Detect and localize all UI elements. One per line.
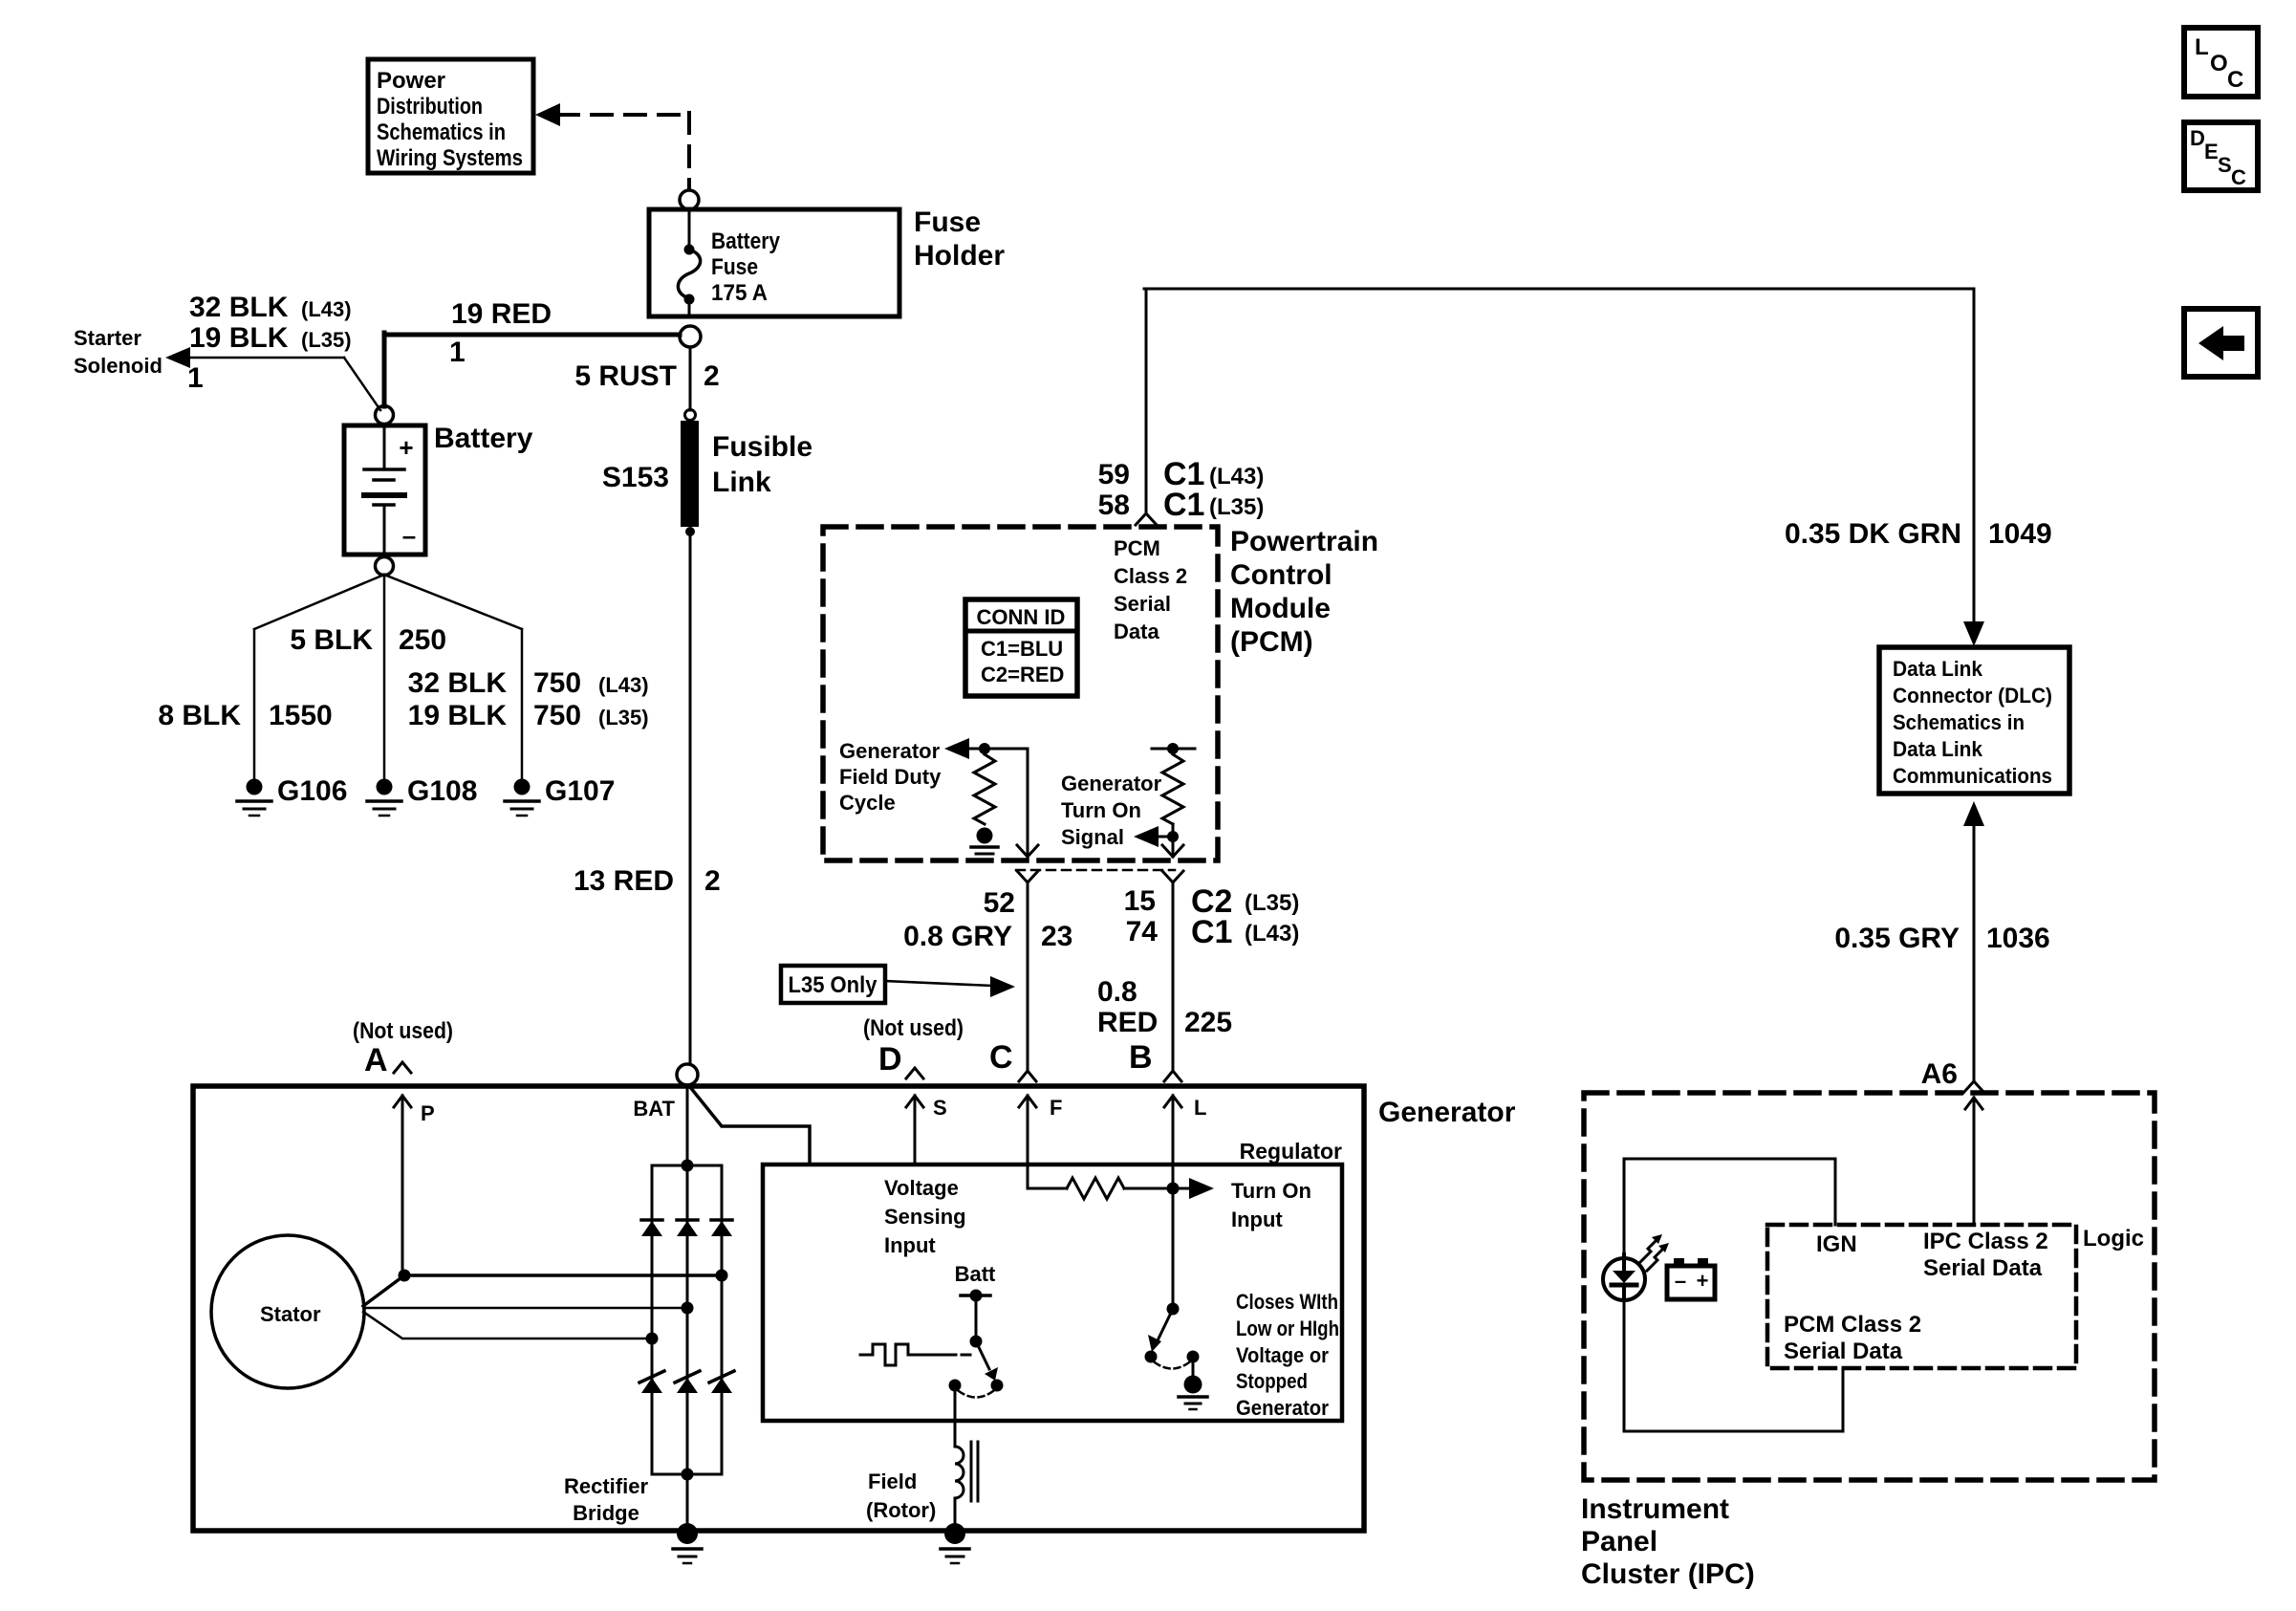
svg-text:L: L (1194, 1096, 1206, 1120)
wire: LED to PCM class 2 serial data (1623, 1295, 1626, 1431)
svg-text:Stator: Stator (260, 1302, 321, 1326)
svg-text:G106: G106 (277, 775, 347, 807)
svg-text:D: D (2190, 126, 2205, 150)
svg-text:C1: C1 (1191, 914, 1232, 950)
svg-text:PCM Class 2: PCM Class 2 (1784, 1312, 1921, 1338)
svg-text:Generator: Generator (1378, 1097, 1516, 1128)
zener diode (bottom row) x3 (639, 1371, 664, 1393)
generator pin labels A/D/C/B (353, 1015, 1153, 1078)
svg-text:L: L (2195, 34, 2209, 60)
svg-text:C: C (2231, 165, 2246, 189)
svg-text:Turn On: Turn On (1061, 798, 1141, 822)
svg-text:0.35 DK GRN: 0.35 DK GRN (1785, 518, 1961, 550)
svg-text:Regulator: Regulator (1240, 1139, 1342, 1164)
svg-text:L35 Only: L35 Only (789, 972, 878, 998)
svg-text:1049: 1049 (1988, 518, 2052, 550)
svg-text:2: 2 (704, 360, 720, 392)
wire: 0.8 GRY 23 circuit to generator F (1027, 882, 1029, 1072)
svg-text:Generator: Generator (1061, 772, 1162, 795)
svg-text:59: 59 (1098, 459, 1130, 490)
svg-text:32 BLK: 32 BLK (408, 667, 508, 699)
svg-text:Link: Link (712, 467, 771, 498)
wire label: 5 RUST 2 (574, 360, 719, 392)
svg-text:Solenoid: Solenoid (74, 354, 162, 378)
svg-text:(L43): (L43) (598, 673, 649, 697)
svg-text:(L43): (L43) (301, 297, 352, 321)
wire: BAT sense into regulator (690, 1087, 810, 1165)
svg-text:Stopped: Stopped (1236, 1369, 1308, 1393)
battery (344, 425, 425, 555)
ground: rectifier bridge to case (673, 1523, 702, 1563)
svg-text:BAT: BAT (633, 1097, 675, 1121)
svg-text:Generator: Generator (1236, 1396, 1329, 1420)
svg-text:(Not used): (Not used) (863, 1015, 964, 1041)
wire: stator phase 2 (364, 1307, 687, 1310)
svg-text:Schematics in: Schematics in (377, 120, 506, 145)
svg-text:13 RED: 13 RED (574, 865, 674, 897)
node: ring terminal above fuse holder (680, 190, 699, 209)
Powertrain Control Module (PCM) dashed box (823, 527, 1218, 860)
resistor: turn on input feed (1028, 1187, 1067, 1190)
svg-text:32 BLK: 32 BLK (189, 292, 289, 323)
node: battery positive ring terminal (376, 406, 394, 425)
svg-text:750: 750 (533, 700, 581, 731)
svg-text:Input: Input (1231, 1208, 1283, 1231)
svg-text:175 A: 175 A (711, 280, 768, 306)
svg-text:Voltage or: Voltage or (1236, 1343, 1329, 1367)
svg-text:S153: S153 (602, 462, 669, 493)
svg-text:2: 2 (704, 865, 721, 897)
svg-text:8 BLK: 8 BLK (158, 700, 241, 731)
svg-text:15: 15 (1124, 885, 1156, 917)
node: ring terminal below fuse holder (680, 326, 701, 347)
pin F with arrow (1019, 1096, 1036, 1107)
svg-text:Data Link: Data Link (1893, 737, 1983, 761)
svg-text:C: C (989, 1039, 1013, 1076)
pin 59/58 C1 connector chevron at PCM (1136, 513, 1157, 525)
svg-text:C1: C1 (1163, 487, 1204, 523)
svg-text:Logic: Logic (2083, 1226, 2144, 1252)
svg-text:(L35): (L35) (1209, 494, 1264, 520)
svg-text:5 RUST: 5 RUST (574, 360, 677, 392)
svg-text:B: B (1129, 1039, 1153, 1076)
CONN ID legend table (965, 599, 1077, 696)
svg-text:Class 2: Class 2 (1114, 564, 1187, 588)
svg-text:1550: 1550 (269, 700, 333, 731)
Instrument Panel Cluster (IPC) dashed box (1584, 1093, 2155, 1480)
svg-text:Batt: Batt (955, 1262, 996, 1286)
wire: 0.35 GRY 1036 from IPC to DLC (1963, 801, 1984, 826)
svg-text:19 BLK: 19 BLK (189, 322, 289, 354)
svg-text:D: D (878, 1041, 902, 1078)
svg-text:Field: Field (868, 1469, 917, 1493)
svg-text:Control: Control (1230, 559, 1332, 591)
field (rotor) coil (954, 1385, 957, 1447)
node: battery negative ring terminal (376, 557, 394, 576)
svg-text:Battery: Battery (711, 229, 781, 254)
svg-text:Sensing: Sensing (884, 1205, 966, 1229)
pin P with arrow (394, 1096, 411, 1107)
svg-text:P: P (421, 1101, 435, 1125)
svg-text:Turn On: Turn On (1231, 1179, 1311, 1203)
svg-text:Connector (DLC): Connector (DLC) (1893, 684, 2052, 708)
svg-text:Fusible: Fusible (712, 431, 812, 463)
wire: 5 RUST down from fuse holder (689, 347, 692, 410)
svg-text:Power: Power (377, 68, 445, 94)
PWM waveform symbol (860, 1344, 924, 1365)
svg-text:Serial Data: Serial Data (1784, 1339, 1903, 1364)
wire: 13 RED 2 down to generator BAT (689, 532, 692, 1064)
wire: stator phase 3 (363, 1312, 652, 1339)
pin A6 connector chevron at IPC (1921, 1058, 1958, 1090)
svg-text:Starter: Starter (74, 326, 141, 350)
DESC tab box (2184, 122, 2258, 190)
svg-text:Panel: Panel (1581, 1526, 1657, 1557)
svg-text:Closes WIth: Closes WIth (1236, 1290, 1338, 1314)
svg-text:(L35): (L35) (1245, 890, 1299, 916)
svg-text:Holder: Holder (914, 240, 1005, 272)
back arrow tab box (2184, 309, 2258, 377)
Generator Field Duty Cycle internal output (839, 739, 942, 815)
svg-text:(L43): (L43) (1245, 921, 1299, 947)
svg-text:1: 1 (187, 362, 204, 394)
LOC tab box (2184, 28, 2258, 97)
svg-text:Serial Data: Serial Data (1923, 1255, 2043, 1281)
svg-text:Fuse: Fuse (711, 254, 758, 280)
svg-text:CONN ID: CONN ID (977, 605, 1066, 629)
svg-text:A6: A6 (1921, 1058, 1958, 1090)
callout: L35 Only (781, 966, 885, 1003)
svg-text:Generator: Generator (839, 739, 941, 763)
resistor: field duty pull (974, 754, 995, 824)
svg-text:(Rotor): (Rotor) (866, 1498, 936, 1522)
svg-text:74: 74 (1126, 916, 1159, 947)
svg-text:Rectifier: Rectifier (564, 1474, 648, 1498)
svg-text:0.8: 0.8 (1097, 976, 1137, 1008)
Generator Turn On Signal internal output (1061, 772, 1162, 849)
svg-text:PCM: PCM (1114, 536, 1160, 560)
wire: to starter solenoid with labels 32 BLK (L43) / 19 BLK (L35) (165, 347, 190, 368)
svg-text:19 BLK: 19 BLK (408, 700, 508, 731)
svg-text:+: + (1697, 1269, 1709, 1293)
svg-text:Instrument: Instrument (1581, 1493, 1729, 1525)
svg-text:–: – (402, 521, 416, 550)
svg-text:Serial: Serial (1114, 592, 1171, 616)
svg-text:+: + (399, 433, 413, 462)
wire: stator phase 1 (363, 1275, 722, 1306)
rectifier bridge (652, 1165, 722, 1474)
svg-text:(PCM): (PCM) (1230, 626, 1313, 658)
svg-text:E: E (2204, 140, 2219, 163)
svg-text:Data: Data (1114, 620, 1159, 643)
ground G108 (367, 779, 401, 816)
svg-text:1: 1 (449, 337, 466, 368)
ground: field to case (941, 1523, 969, 1563)
svg-text:750: 750 (533, 667, 581, 699)
svg-text:S: S (2218, 153, 2232, 177)
svg-text:250: 250 (399, 624, 446, 656)
svg-text:IPC Class 2: IPC Class 2 (1923, 1229, 2048, 1254)
wire: ground fan-out from battery negative (254, 575, 384, 629)
ground: PCM internal (971, 828, 998, 860)
svg-text:23: 23 (1041, 921, 1072, 952)
svg-text:19 RED: 19 RED (451, 298, 552, 330)
fuse: Battery Fuse 175 A element (688, 209, 691, 250)
wire: dashed reference arrow to fuse holder (535, 103, 560, 126)
svg-text:Low or HIgh: Low or HIgh (1236, 1317, 1339, 1340)
switch: field PWM driver (955, 1262, 996, 1286)
splice S153 fusible link (685, 410, 696, 421)
svg-text:A: A (364, 1042, 388, 1078)
svg-text:225: 225 (1184, 1007, 1232, 1038)
svg-text:–: – (1675, 1269, 1686, 1293)
wire: 0.35 DK GRN 1049 to DLC (1963, 621, 1984, 646)
svg-text:C1=BLU: C1=BLU (981, 637, 1063, 661)
connector chevrons at generator case (394, 1062, 411, 1073)
wire: 19 RED 1 horizontal feed (384, 333, 680, 337)
battery telltale icon (1667, 1266, 1715, 1299)
diode (top row) x3 (641, 1220, 662, 1236)
svg-text:(L35): (L35) (301, 328, 352, 352)
wire: IGN feed to charge indicator (1834, 1159, 1837, 1225)
pin L with arrow (1164, 1096, 1181, 1107)
svg-text:F: F (1050, 1096, 1062, 1120)
ground G107 (505, 779, 539, 816)
svg-text:1036: 1036 (1986, 923, 2050, 954)
svg-text:58: 58 (1098, 490, 1130, 521)
svg-text:Powertrain: Powertrain (1230, 526, 1378, 557)
svg-text:C2=RED: C2=RED (981, 663, 1064, 686)
svg-text:Field Duty: Field Duty (839, 765, 942, 789)
regulator box (763, 1165, 1342, 1421)
svg-text:Data Link: Data Link (1893, 657, 1983, 681)
svg-text:(L43): (L43) (1209, 464, 1264, 490)
svg-text:G108: G108 (407, 775, 477, 807)
resistor: turn on signal (1162, 754, 1183, 824)
svg-text:Distribution: Distribution (377, 94, 483, 120)
stator (211, 1235, 364, 1388)
svg-text:G107: G107 (545, 775, 615, 807)
svg-text:Battery: Battery (434, 423, 533, 454)
svg-text:(L35): (L35) (598, 706, 649, 729)
svg-text:IGN: IGN (1816, 1231, 1857, 1257)
Data Link Connector (DLC) reference box (1879, 647, 2069, 794)
svg-text:Schematics in: Schematics in (1893, 710, 2025, 734)
svg-text:RED: RED (1097, 1007, 1158, 1038)
svg-text:Fuse: Fuse (914, 207, 981, 238)
svg-text:0.35 GRY: 0.35 GRY (1834, 923, 1960, 954)
wire: PCM serial data up and across to DLC (1145, 289, 1148, 513)
ground G106 (237, 779, 271, 816)
svg-text:Cycle: Cycle (839, 791, 896, 815)
logic block dashed box (1767, 1225, 2076, 1368)
svg-text:(Not used): (Not used) (353, 1018, 453, 1044)
LED: charge indicator (1603, 1258, 1645, 1300)
svg-text:Communications: Communications (1893, 764, 2052, 788)
connector row below PCM (C2/C1 inline) (1016, 869, 1175, 872)
Generator box (193, 1086, 1364, 1531)
fuse holder box (649, 209, 899, 316)
svg-text:Wiring Systems: Wiring Systems (377, 145, 523, 171)
svg-text:C: C (2227, 67, 2243, 93)
wire: field duty output down (1027, 749, 1029, 857)
svg-text:Signal: Signal (1061, 825, 1124, 849)
LED emission arrows (1640, 1238, 1658, 1262)
svg-text:5 BLK: 5 BLK (290, 624, 373, 656)
pin BAT ring terminal (677, 1064, 698, 1085)
svg-text:Input: Input (884, 1233, 936, 1257)
svg-text:Cluster (IPC): Cluster (IPC) (1581, 1558, 1755, 1590)
switch: L terminal to ground (closes with low/high voltage) (1172, 1188, 1175, 1309)
pin S with arrow (906, 1096, 923, 1107)
wire: 0.8 RED 225 circuit to generator L (1172, 882, 1175, 1072)
reference box: Power Distribution Schematics in Wiring Systems (368, 59, 533, 173)
svg-text:0.8 GRY: 0.8 GRY (903, 921, 1012, 952)
svg-text:S: S (933, 1096, 947, 1120)
svg-text:52: 52 (984, 887, 1015, 919)
svg-text:Voltage: Voltage (884, 1176, 959, 1200)
svg-text:Module: Module (1230, 593, 1331, 624)
svg-text:Bridge: Bridge (573, 1501, 639, 1525)
svg-text:O: O (2210, 51, 2228, 76)
